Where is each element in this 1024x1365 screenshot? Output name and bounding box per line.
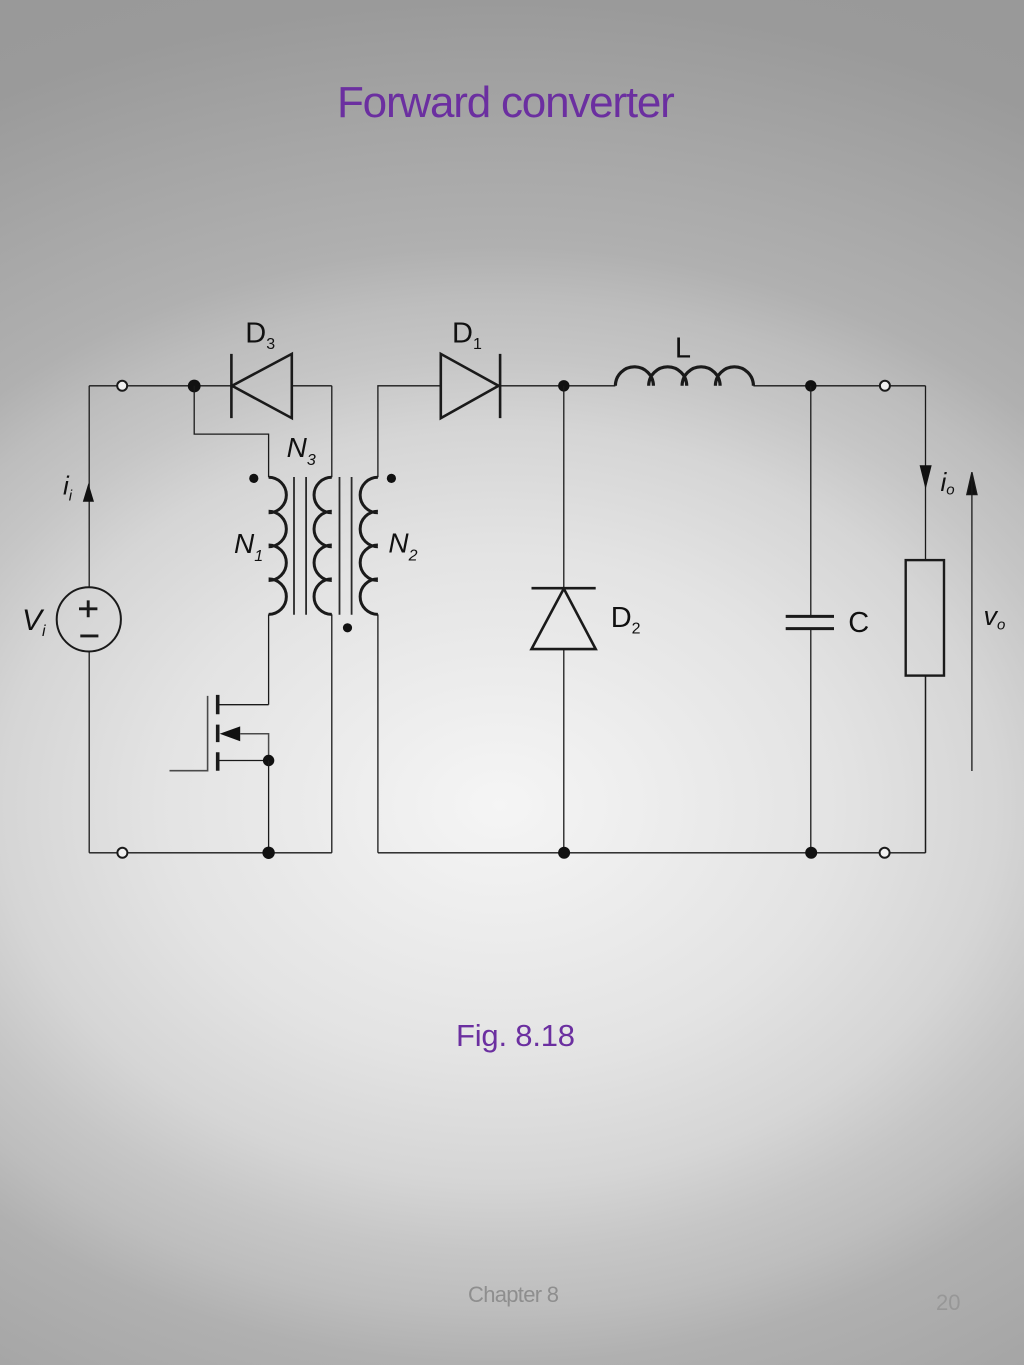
winding N1: [269, 477, 287, 614]
footer page number: [936, 1292, 960, 1314]
node input top terminal (open circle): [117, 381, 127, 391]
wire N1 bottom to MOSFET drain: [268, 614, 270, 704]
label vo: [984, 601, 1006, 634]
node output top terminal (open circle): [880, 381, 890, 391]
label Vi: [22, 604, 46, 640]
wire D3 anode to N3 top: [292, 386, 332, 478]
label N1: [234, 528, 263, 565]
wire source to bottom rail: [268, 761, 270, 853]
svg-text:L: L: [675, 333, 691, 365]
wire right rail bottom: [925, 676, 927, 853]
wire N2 top to D1: [378, 386, 441, 478]
node junction D2/rail: [558, 847, 570, 859]
wire L junction down to C: [810, 386, 812, 617]
svg-text:io: io: [941, 467, 955, 499]
wire bottom rail secondary: [378, 676, 926, 853]
phase dot N2: [387, 474, 396, 483]
transistor Q1 source lead: [218, 760, 269, 762]
wire left rail: [88, 386, 90, 853]
transistor Q1 body arrow: [220, 726, 241, 741]
node junction source/rail: [262, 847, 274, 859]
arrow current ii: [83, 483, 94, 502]
label io: [941, 467, 955, 499]
transistor Q1 gate line: [170, 696, 208, 771]
capacitor C: [786, 616, 834, 628]
wire D2 anode to bottom rail: [563, 649, 565, 853]
svg-text:N3: N3: [287, 432, 316, 469]
node junction C/rail: [805, 847, 817, 859]
svg-text:D2: D2: [611, 602, 641, 638]
node junction L/C: [805, 380, 816, 391]
transformer core bars: [294, 477, 352, 615]
wire D1 junction down to D2: [563, 386, 565, 588]
transistor Q1 channel bars: [216, 695, 220, 771]
title: [337, 81, 674, 125]
label N3: [287, 432, 316, 469]
transistor Q1 drain lead: [218, 704, 269, 706]
resistor load: [906, 560, 944, 676]
node source junction: [263, 755, 274, 766]
label N2: [388, 528, 417, 565]
wire N3 bottom to bottom rail: [331, 614, 333, 852]
diode D3: [231, 354, 291, 418]
svg-text:D1: D1: [452, 318, 482, 354]
svg-text:vo: vo: [984, 601, 1006, 634]
wire L to output corner: [753, 385, 925, 387]
winding N3: [314, 477, 332, 614]
node output bottom terminal (open circle): [880, 848, 890, 858]
wire N2 bottom to bottom rail: [377, 614, 379, 852]
Vi minus sign: [80, 634, 98, 637]
wire top-left rail: [89, 385, 231, 387]
label L: [675, 333, 691, 365]
arrow current io: [920, 465, 932, 489]
wire D1 cathode to L: [500, 385, 615, 387]
figure caption: [456, 1020, 575, 1051]
wire bottom-left rail: [89, 852, 332, 854]
label D3: [245, 318, 275, 354]
svg-text:ii: ii: [63, 471, 73, 505]
svg-text:D3: D3: [245, 318, 275, 354]
wire junction A down to N1 top: [194, 386, 268, 478]
winding N2: [360, 477, 378, 614]
diode D1: [441, 354, 500, 418]
svg-text:Vi: Vi: [22, 604, 46, 640]
phase dot N1: [249, 474, 258, 483]
label D1: [452, 318, 482, 354]
diode D2: [532, 588, 596, 649]
phase dot N3: [343, 623, 352, 632]
label D2: [611, 602, 641, 638]
node junction D1/D2: [558, 380, 569, 391]
label ii: [63, 471, 73, 505]
wire C to bottom rail: [810, 629, 812, 853]
svg-text:N2: N2: [388, 528, 417, 565]
svg-text:N1: N1: [234, 528, 263, 565]
node junction A (top rail / D3 cathode): [188, 380, 201, 393]
arrow voltage vo: [967, 472, 977, 771]
node input bottom terminal (open circle): [117, 848, 127, 858]
Vi plus sign: [79, 600, 97, 617]
transistor Q1 body lead: [240, 734, 268, 761]
label C: [848, 607, 869, 639]
inductor L: [615, 367, 753, 386]
svg-text:C: C: [848, 607, 869, 639]
voltage source Vi: [57, 587, 121, 651]
footer chapter: [468, 1284, 558, 1306]
wire right rail top: [925, 386, 927, 560]
